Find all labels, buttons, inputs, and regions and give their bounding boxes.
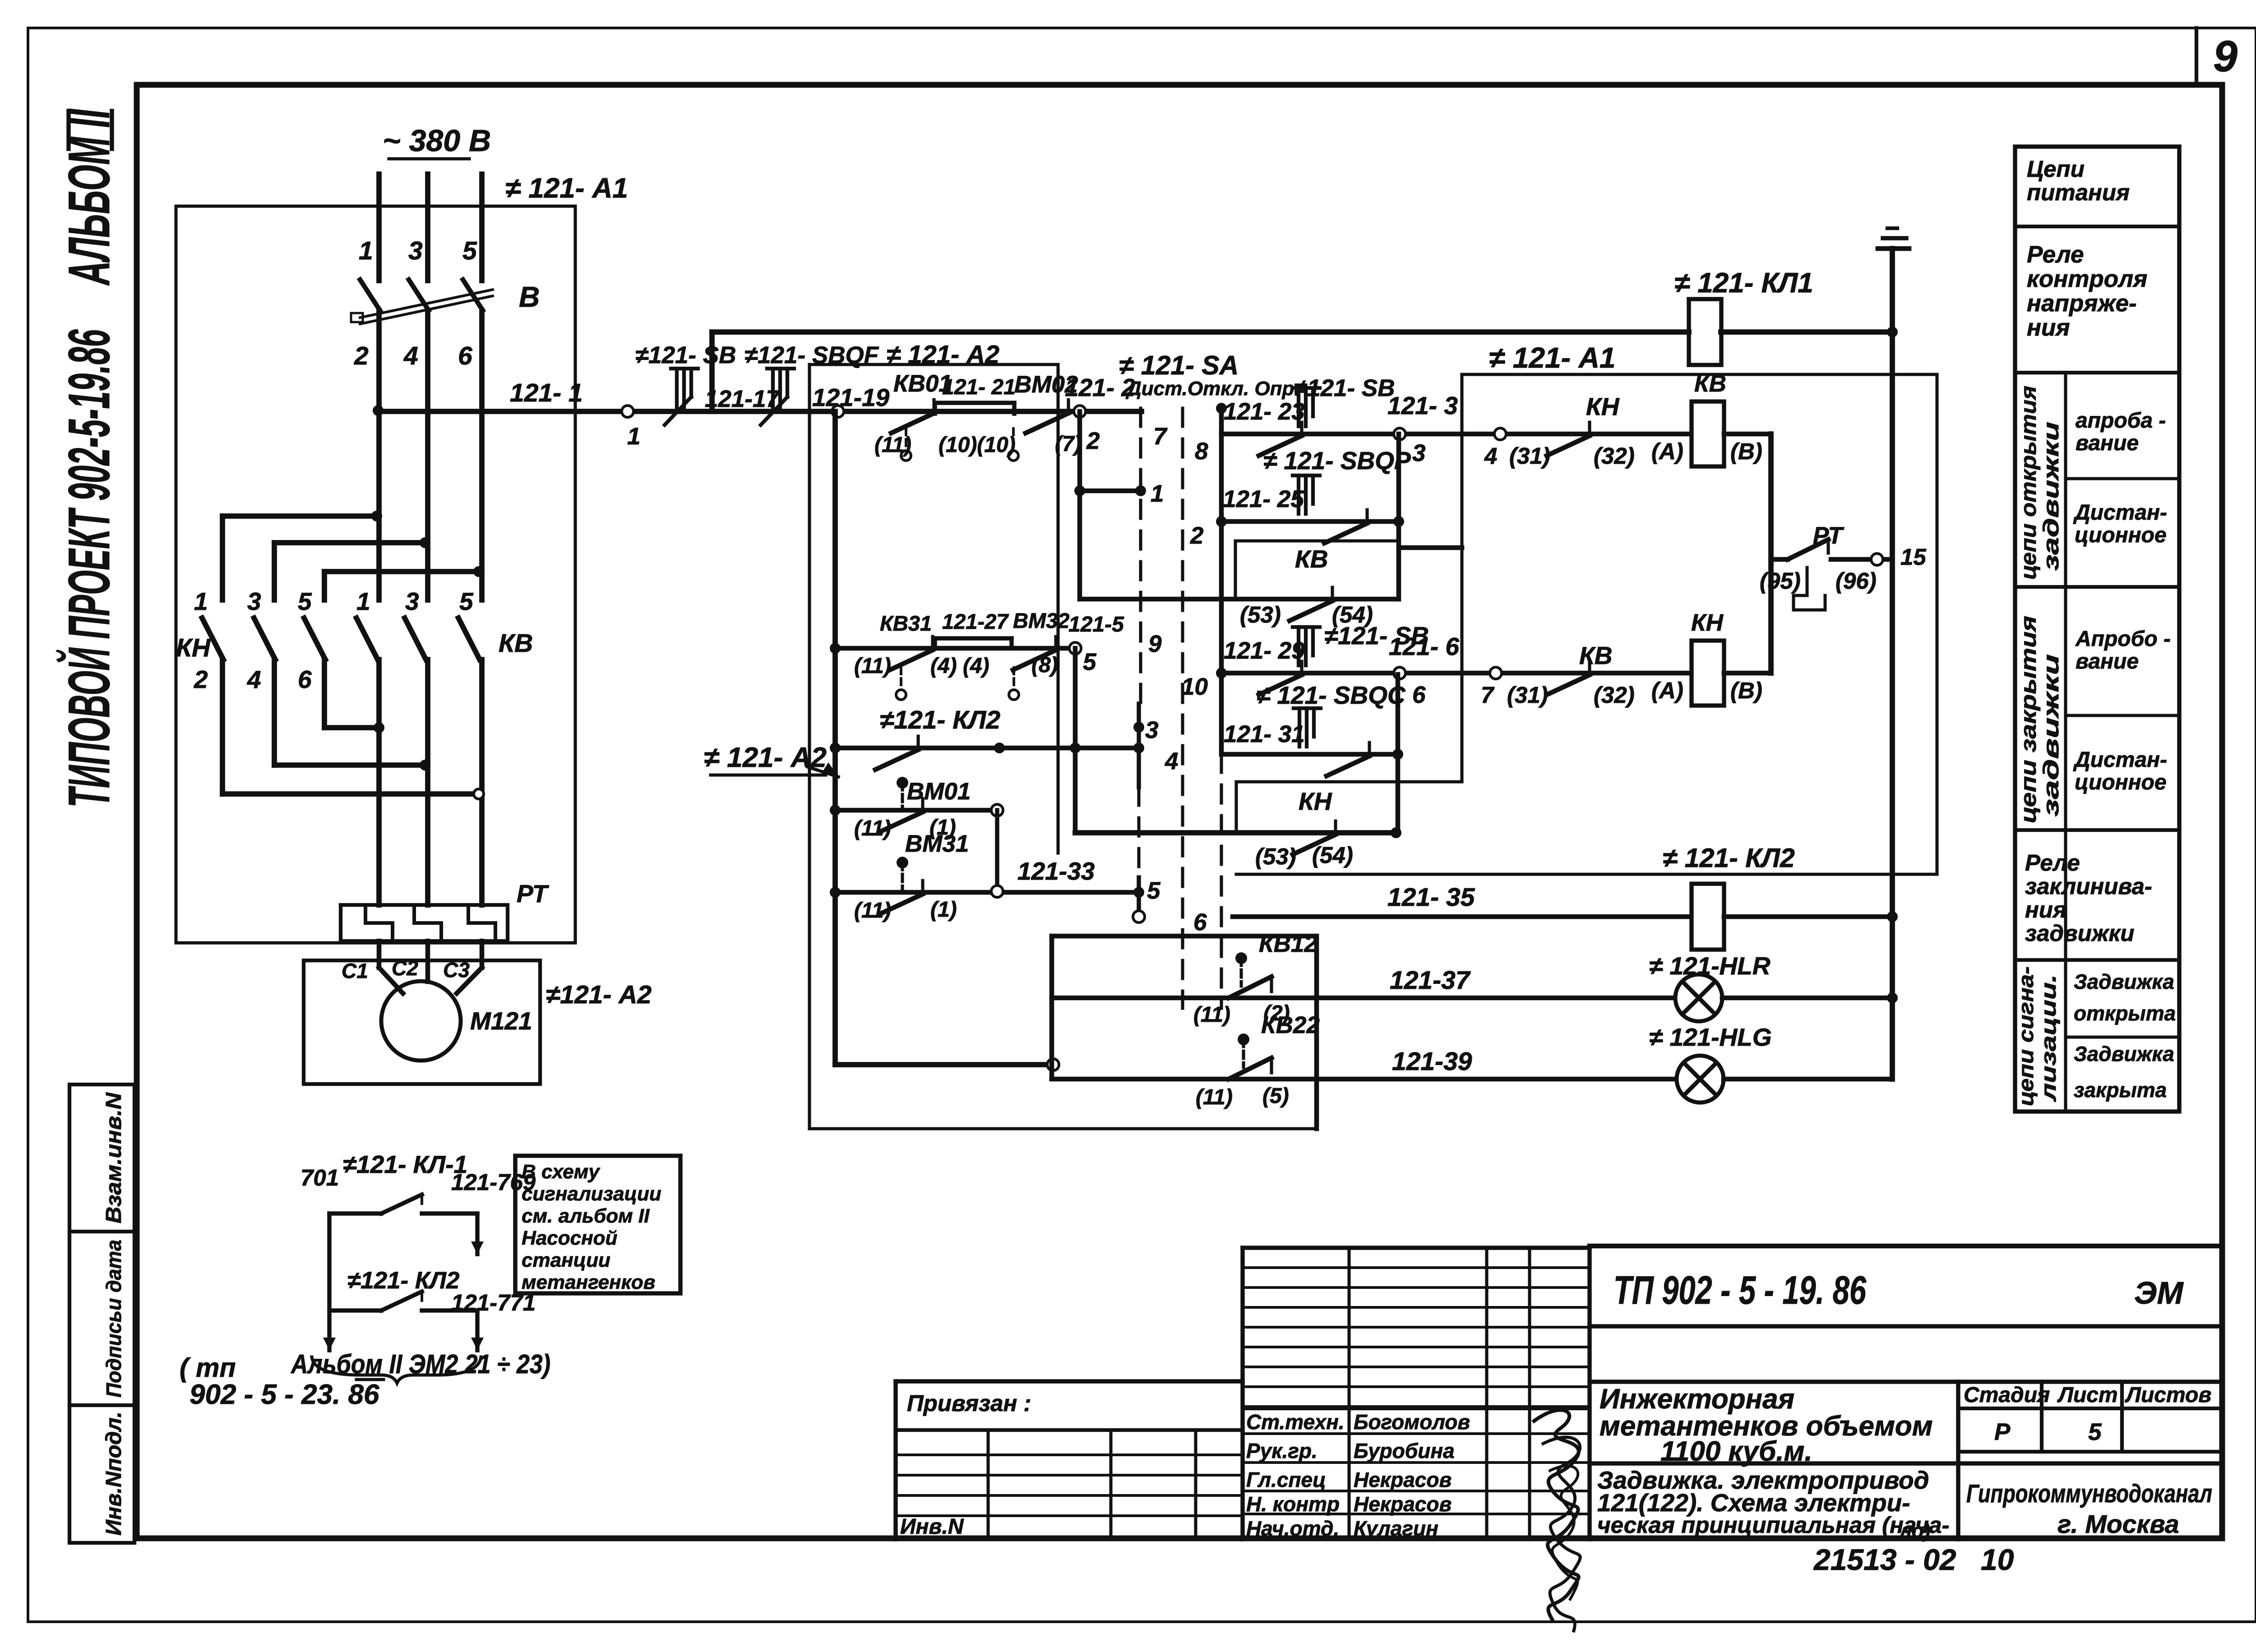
svg-text:9: 9 xyxy=(1148,631,1162,657)
svg-text:Инжекторная: Инжекторная xyxy=(1600,1384,1794,1415)
svg-text:(4) (4): (4) (4) xyxy=(930,654,989,678)
svg-text:ционное: ционное xyxy=(2075,771,2167,794)
svg-text:Листов: Листов xyxy=(2125,1383,2211,1407)
svg-text:121-17: 121-17 xyxy=(705,386,781,412)
svg-text:ВМ31: ВМ31 xyxy=(905,831,969,857)
svg-text:ческая принципиальная (нача-: ческая принципиальная (нача- xyxy=(1597,1512,1949,1538)
svg-text:В: В xyxy=(519,281,540,313)
svg-text:10: 10 xyxy=(1981,1543,2014,1576)
svg-text:121-37: 121-37 xyxy=(1390,966,1471,995)
svg-text:9: 9 xyxy=(2213,32,2238,81)
svg-text:ЭМ: ЭМ xyxy=(2134,1275,2184,1311)
svg-text:(5): (5) xyxy=(1262,1084,1289,1108)
svg-text:121- 25: 121- 25 xyxy=(1223,486,1304,512)
svg-text:Н. контр: Н. контр xyxy=(1246,1492,1340,1516)
svg-text:Р: Р xyxy=(1994,1419,2011,1445)
svg-text:1: 1 xyxy=(1151,480,1164,507)
svg-text:РТ: РТ xyxy=(517,880,550,908)
svg-text:≠121- КЛ2: ≠121- КЛ2 xyxy=(347,1267,459,1294)
svg-text:121-27: 121-27 xyxy=(942,609,1009,633)
svg-text:≠121- КЛ2: ≠121- КЛ2 xyxy=(880,706,1000,734)
svg-text:сигнализации: сигнализации xyxy=(522,1183,661,1205)
svg-text:Дистан-: Дистан- xyxy=(2073,748,2167,772)
svg-text:≠ 121- SBQC: ≠ 121- SBQC xyxy=(1257,681,1406,709)
svg-text:Насосной: Насосной xyxy=(522,1227,618,1249)
svg-text:КВ: КВ xyxy=(1295,545,1328,573)
svg-text:В схему: В схему xyxy=(522,1161,601,1183)
svg-text:701: 701 xyxy=(300,1165,339,1191)
svg-text:КН: КН xyxy=(1586,392,1620,420)
svg-text:3: 3 xyxy=(1145,717,1158,743)
svg-text:21513 - 02: 21513 - 02 xyxy=(1813,1543,1956,1576)
svg-text:≠ 121- SBQP: ≠ 121- SBQP xyxy=(1263,447,1411,475)
svg-text:1: 1 xyxy=(359,236,373,265)
svg-text:(А): (А) xyxy=(1651,678,1683,703)
svg-text:Дистан-: Дистан- xyxy=(2073,501,2167,525)
svg-text:открыта: открыта xyxy=(2074,1001,2176,1025)
svg-text:121-39: 121-39 xyxy=(1392,1047,1472,1076)
svg-text:Подписьи дата: Подписьи дата xyxy=(102,1240,125,1398)
svg-text:2: 2 xyxy=(354,341,369,370)
svg-text:апроба -: апроба - xyxy=(2076,409,2166,433)
svg-text:лизации.: лизации. xyxy=(2037,974,2060,1102)
svg-text:≠ 121-HLR: ≠ 121-HLR xyxy=(1649,952,1771,980)
svg-text:г. Москва: г. Москва xyxy=(2057,1510,2179,1539)
svg-text:Инв.Nподл.: Инв.Nподл. xyxy=(102,1412,126,1536)
svg-text:1: 1 xyxy=(627,423,640,450)
svg-text:станции: станции xyxy=(522,1249,610,1271)
svg-text:(11): (11) xyxy=(854,899,891,923)
svg-text:2: 2 xyxy=(1190,522,1203,549)
svg-text:см. альбом II: см. альбом II xyxy=(522,1205,650,1227)
svg-text:(53): (53) xyxy=(1255,844,1296,869)
svg-text:121- 31: 121- 31 xyxy=(1224,721,1305,748)
svg-text:4: 4 xyxy=(1165,748,1178,775)
svg-text:С1: С1 xyxy=(342,959,368,983)
svg-text:С2: С2 xyxy=(392,956,418,980)
svg-text:5: 5 xyxy=(1083,649,1097,675)
svg-text:121- 29: 121- 29 xyxy=(1224,637,1305,664)
svg-text:Ст.техн.: Ст.техн. xyxy=(1246,1410,1345,1434)
svg-text:1: 1 xyxy=(356,587,370,615)
svg-text:121-5: 121-5 xyxy=(1068,613,1124,637)
svg-text:121-33: 121-33 xyxy=(1017,857,1095,885)
svg-text:(31): (31) xyxy=(1509,443,1550,469)
svg-text:121- 1: 121- 1 xyxy=(510,378,583,407)
svg-text:контроля: контроля xyxy=(2027,266,2147,292)
svg-text:КВ22: КВ22 xyxy=(1261,1012,1320,1038)
svg-text:КВ12: КВ12 xyxy=(1259,931,1318,957)
svg-text:121-19: 121-19 xyxy=(812,383,890,411)
svg-text:≠ 121- КЛ1: ≠ 121- КЛ1 xyxy=(1674,268,1813,299)
svg-text:≠121- SB: ≠121- SB xyxy=(635,342,736,369)
svg-text:цепи сигна-: цепи сигна- xyxy=(2014,966,2038,1106)
svg-text:Буробина: Буробина xyxy=(1354,1439,1455,1463)
svg-text:(32): (32) xyxy=(1594,682,1635,708)
svg-text:Реле: Реле xyxy=(2027,241,2084,268)
svg-text:8: 8 xyxy=(1195,438,1208,465)
svg-text:121- 21: 121- 21 xyxy=(942,375,1016,399)
svg-text:напряже-: напряже- xyxy=(2027,290,2137,317)
svg-text:задвижки: задвижки xyxy=(2039,422,2063,571)
svg-text:( тп: ( тп xyxy=(180,1353,236,1383)
svg-text:(96): (96) xyxy=(1835,568,1877,594)
svg-text:задвижки: задвижки xyxy=(2039,654,2063,817)
svg-text:Гипрокоммунводоканал: Гипрокоммунводоканал xyxy=(1966,1479,2212,1508)
svg-text:ВМ32: ВМ32 xyxy=(1013,609,1069,632)
svg-text:~ 380 В: ~ 380 В xyxy=(383,124,491,158)
svg-text:Цепи: Цепи xyxy=(2027,156,2085,182)
svg-text:Альбом II ЭМ2 21 ÷ 23): Альбом II ЭМ2 21 ÷ 23) xyxy=(290,1349,550,1379)
svg-text:4: 4 xyxy=(403,341,418,370)
svg-text:вание: вание xyxy=(2076,431,2139,455)
svg-text:ционное: ционное xyxy=(2075,523,2167,547)
svg-text:2: 2 xyxy=(1086,428,1100,454)
svg-text:С3: С3 xyxy=(443,958,470,982)
svg-text:КН: КН xyxy=(1299,787,1332,815)
svg-text:КВ: КВ xyxy=(499,629,533,658)
svg-text:задвижки: задвижки xyxy=(2025,920,2134,946)
svg-text:КН: КН xyxy=(1691,609,1724,636)
svg-text:1100 куб.м.: 1100 куб.м. xyxy=(1660,1436,1812,1467)
svg-text:питания: питания xyxy=(2027,180,2130,205)
svg-text:Некрасов: Некрасов xyxy=(1354,1468,1452,1491)
svg-text:(54): (54) xyxy=(1312,842,1353,868)
svg-text:Лист: Лист xyxy=(2057,1383,2118,1407)
svg-text:М121: М121 xyxy=(470,1007,532,1035)
svg-text:КН: КН xyxy=(176,633,211,662)
svg-text:902 - 5 - 23. 86: 902 - 5 - 23. 86 xyxy=(190,1379,379,1410)
svg-text:5: 5 xyxy=(1147,877,1161,904)
svg-text:цепи открытия: цепи открытия xyxy=(2017,386,2041,580)
svg-text:ВМ01: ВМ01 xyxy=(907,778,971,805)
svg-text:Богомолов: Богомолов xyxy=(1354,1410,1470,1434)
svg-text:Апробо -: Апробо - xyxy=(2075,627,2171,651)
svg-text:15: 15 xyxy=(1900,544,1926,570)
svg-text:(11): (11) xyxy=(854,654,891,678)
svg-text:7: 7 xyxy=(1153,423,1168,450)
svg-text:Инв.N: Инв.N xyxy=(900,1515,964,1539)
svg-text:4: 4 xyxy=(247,665,261,693)
svg-text:3: 3 xyxy=(1412,440,1425,466)
svg-text:2: 2 xyxy=(194,665,208,693)
svg-text:Нач.отд.: Нач.отд. xyxy=(1246,1517,1339,1540)
svg-text:Реле: Реле xyxy=(2025,850,2080,876)
svg-text:(11): (11) xyxy=(874,433,911,457)
svg-text:ТИПОВОЙ ПРОЕКТ 902-5-19.86: ТИПОВОЙ ПРОЕКТ 902-5-19.86 xyxy=(55,329,122,808)
svg-text:≠ 121- SА: ≠ 121- SА xyxy=(1119,351,1239,380)
svg-text:Кулагин: Кулагин xyxy=(1354,1517,1438,1540)
svg-text:≠ 121- КЛ2: ≠ 121- КЛ2 xyxy=(1663,843,1795,873)
svg-text:≠121- КЛ-1: ≠121- КЛ-1 xyxy=(343,1150,467,1178)
svg-text:10: 10 xyxy=(1181,674,1208,700)
svg-text:3: 3 xyxy=(405,587,419,615)
svg-text:(11): (11) xyxy=(1193,1003,1230,1027)
svg-text:6: 6 xyxy=(298,665,312,693)
svg-text:(А): (А) xyxy=(1651,438,1683,464)
svg-text:КВ31: КВ31 xyxy=(880,611,932,635)
svg-text:(53): (53) xyxy=(1240,602,1281,628)
svg-text:≠ 121- А1: ≠ 121- А1 xyxy=(505,173,628,204)
svg-text:РТ: РТ xyxy=(1813,522,1845,549)
svg-text:Дист.Откл. Опр.: Дист.Откл. Опр. xyxy=(1125,378,1300,400)
svg-text:Привязан :: Привязан : xyxy=(907,1390,1031,1416)
svg-text:Гл.спец: Гл.спец xyxy=(1246,1468,1326,1491)
svg-text:5: 5 xyxy=(462,236,477,265)
svg-text:Взам.инв.N: Взам.инв.N xyxy=(102,1092,126,1223)
svg-text:121- 6: 121- 6 xyxy=(1389,632,1459,660)
svg-text:ния: ния xyxy=(2025,897,2066,923)
svg-text:(11): (11) xyxy=(1196,1085,1233,1109)
svg-text:(32): (32) xyxy=(1594,443,1635,469)
svg-text:метангенков: метангенков xyxy=(522,1271,655,1293)
svg-text:(95): (95) xyxy=(1760,568,1801,594)
svg-text:6: 6 xyxy=(1412,682,1426,708)
svg-text:1: 1 xyxy=(194,587,208,615)
svg-text:Стадия: Стадия xyxy=(1964,1383,2050,1407)
svg-text:3: 3 xyxy=(408,236,423,265)
svg-text:ния: ния xyxy=(2027,314,2070,341)
svg-text:6: 6 xyxy=(458,341,472,370)
svg-text:ТП 902 - 5 - 19. 86: ТП 902 - 5 - 19. 86 xyxy=(1613,1268,1867,1312)
svg-text:121- 35: 121- 35 xyxy=(1387,883,1475,912)
svg-text:121- 3: 121- 3 xyxy=(1387,392,1458,420)
svg-text:цепи закрытия: цепи закрытия xyxy=(2017,616,2041,823)
svg-text:закрыта: закрыта xyxy=(2074,1078,2167,1102)
svg-text:6: 6 xyxy=(1193,909,1207,936)
svg-text:≠ 121- А1: ≠ 121- А1 xyxy=(1489,341,1616,374)
svg-text:КВ: КВ xyxy=(1579,641,1613,669)
svg-text:ло): ло) xyxy=(1899,1520,1930,1542)
svg-text:≠121- А2: ≠121- А2 xyxy=(546,980,652,1009)
svg-text:7: 7 xyxy=(1481,682,1495,708)
svg-text:5: 5 xyxy=(2088,1419,2102,1445)
svg-text:≠ 121-HLG: ≠ 121-HLG xyxy=(1649,1023,1772,1051)
svg-text:заклинива-: заклинива- xyxy=(2025,873,2152,899)
svg-text:(1): (1) xyxy=(930,898,957,922)
svg-text:121- 23: 121- 23 xyxy=(1224,398,1305,425)
svg-text:(31): (31) xyxy=(1507,682,1548,708)
svg-text:вание: вание xyxy=(2076,650,2139,674)
svg-text:(11): (11) xyxy=(854,817,891,840)
svg-text:3: 3 xyxy=(247,587,261,615)
svg-text:(В): (В) xyxy=(1730,438,1762,464)
svg-text:Задвижка: Задвижка xyxy=(2074,1042,2174,1066)
svg-text:5: 5 xyxy=(298,587,312,615)
svg-text:5: 5 xyxy=(459,587,474,615)
svg-text:Рук.гр.: Рук.гр. xyxy=(1246,1439,1318,1463)
svg-text:Некрасов: Некрасов xyxy=(1354,1492,1452,1516)
svg-text:(10)(10): (10)(10) xyxy=(938,433,1016,457)
svg-text:(В): (В) xyxy=(1730,678,1762,703)
svg-text:Задвижка: Задвижка xyxy=(2074,970,2174,993)
svg-text:(8): (8) xyxy=(1031,653,1058,677)
svg-text:4: 4 xyxy=(1484,443,1497,469)
